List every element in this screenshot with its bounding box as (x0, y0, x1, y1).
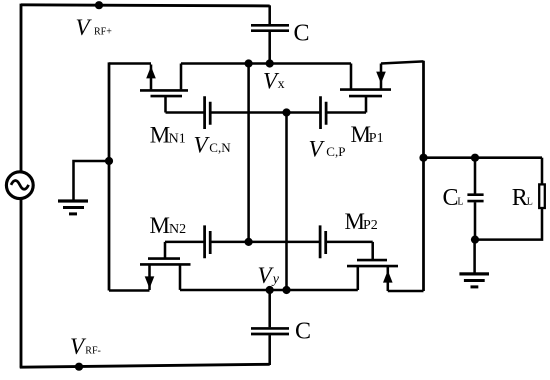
MN1 source lead (arrow up) (150, 65, 153, 90)
wire left ground branch rail (108, 62, 111, 290)
capacitor C (top): lead to VX row (268, 32, 271, 64)
transistor MP1 (340, 64, 391, 113)
MP1 left lead (350, 64, 353, 89)
MN1 drain lead (180, 64, 183, 90)
capacitor CL plates (467, 195, 483, 201)
wire cross-coupling A (VX to bottom gate row) (247, 64, 250, 243)
svg-text:M: M (150, 122, 170, 147)
svg-text:y: y (271, 272, 280, 287)
label MN2 (150, 213, 187, 238)
MP2 gate bar (357, 259, 387, 262)
wire VY row (180, 289, 358, 292)
wire ground stub (74, 161, 110, 200)
label VRF- (70, 334, 101, 359)
wire VC,P to MP1 gate (327, 111, 366, 114)
MP1 gate bar (349, 95, 382, 98)
MN2 gate bar (148, 257, 180, 260)
capacitor C (bottom): lead from VY row (268, 290, 271, 327)
node dot right rail at output row (419, 154, 427, 162)
ground (output) (459, 272, 489, 288)
capacitor C (top) plates (251, 25, 289, 30)
wire MN1 gate to VC,N (166, 111, 204, 114)
node dot VX at cross-wire A (245, 59, 253, 67)
ground (left inner) (58, 199, 88, 215)
svg-text:L: L (457, 196, 463, 207)
MN2 gate lead (164, 242, 167, 259)
capacitor (MN2 gate) plates (205, 225, 211, 258)
node dot VY at cross-wire B (282, 286, 290, 294)
label MP2 (345, 209, 378, 234)
node dot VY at capacitor C (266, 286, 274, 294)
svg-text:P1: P1 (369, 131, 384, 146)
svg-text:C: C (295, 319, 311, 345)
wire bottom-left to MN2 source (109, 289, 150, 292)
AC source V1 (6, 172, 33, 199)
transistor MN1 (140, 64, 188, 113)
node dot output row at CL (471, 154, 479, 162)
MN2 drain lead (179, 264, 182, 290)
MP1 gate lead (365, 96, 368, 112)
svg-text:L: L (527, 196, 533, 207)
wire top-right MP1 to right rail (381, 61, 424, 63)
transistor MN2 (140, 242, 191, 290)
svg-text:C: C (294, 21, 310, 47)
MP2 right lead (arrow up) (387, 267, 390, 291)
svg-text:C: C (443, 185, 459, 211)
MP2 left lead (357, 266, 360, 290)
svg-text:N2: N2 (169, 222, 186, 237)
svg-text:RF+: RF+ (94, 27, 112, 38)
wire cap to MP2 gate (327, 241, 373, 244)
wire left rail upper (source top) (20, 4, 23, 172)
wire bottom gate row cap to cap (211, 241, 319, 244)
node dot left rail at ground stub (105, 157, 113, 165)
svg-text:C,P: C,P (326, 144, 345, 159)
capacitor VC,N plates (205, 96, 211, 129)
label VX (263, 68, 285, 93)
label VRF+ (76, 15, 113, 40)
wire top VRF+ rail (21, 5, 270, 6)
node dot on VRF+ rail (95, 1, 103, 9)
MP2 gate lead (371, 242, 374, 260)
svg-text:P2: P2 (363, 218, 378, 233)
node dot output ground junction (471, 236, 479, 244)
capacitor C (bottom): lead to VRF- rail (268, 335, 271, 365)
label C (top) (294, 21, 310, 47)
wire MN2 gate to cap (165, 241, 204, 244)
svg-text:N1: N1 (169, 131, 186, 146)
svg-text:M: M (150, 213, 170, 238)
label MN1 (150, 122, 186, 147)
capacitor CL lead top (474, 158, 477, 194)
wire bottom VRF- rail (20, 364, 270, 367)
wire top-left to MN1 source (109, 62, 151, 65)
capacitor CL lead bottom (474, 202, 477, 239)
MP1 channel bar (340, 88, 391, 91)
wire VX row (181, 62, 351, 65)
wire output row (424, 156, 543, 159)
label VC,P (309, 136, 346, 161)
capacitor VC,P plates (321, 96, 327, 129)
transistor MP2 (347, 242, 398, 291)
label RL (512, 185, 533, 211)
svg-text:M: M (345, 209, 365, 234)
node dot bottom gate row (cross-wire A) (245, 238, 253, 246)
label MP1 (351, 122, 384, 147)
resistor RL body (539, 184, 545, 208)
label CL (443, 185, 464, 211)
svg-text:x: x (278, 77, 285, 92)
label VC,N (194, 132, 232, 157)
label VY (258, 263, 280, 288)
MN2 source lead (arrow down) (148, 265, 151, 290)
capacitor C (bottom) plates (251, 328, 289, 334)
MN2 channel bar (140, 263, 191, 266)
capacitor C (top): lead from VRF+ rail (268, 5, 271, 24)
MP1 right lead (arrow down) (380, 64, 383, 89)
label C (bottom) (295, 319, 311, 345)
node dot on VRF- rail (75, 363, 83, 371)
wire left rail lower (source bottom) (20, 199, 23, 368)
wire cross-coupling B (top gate row to VY) (285, 113, 288, 291)
svg-text:R: R (512, 185, 528, 211)
node dot top gate row (cross-wire B) (282, 108, 290, 116)
resistor RL lead bottom to junction (475, 208, 542, 239)
MP2 channel bar (347, 265, 398, 268)
MN1 channel bar (140, 89, 188, 92)
resistor RL lead top (541, 158, 544, 184)
MN1 gate bar (151, 95, 183, 98)
wire top gate row VC,N to VC,P (211, 111, 319, 114)
node dot VX at capacitor C (266, 59, 274, 67)
MN1 gate lead (164, 96, 167, 112)
svg-text:RF-: RF- (85, 346, 101, 357)
capacitor (MP2 gate) plates (320, 225, 326, 258)
wire right rail (422, 61, 425, 291)
wire to output ground (473, 240, 476, 273)
wire bottom-right MP2 to right rail (388, 290, 424, 293)
svg-text:C,N: C,N (209, 140, 231, 155)
